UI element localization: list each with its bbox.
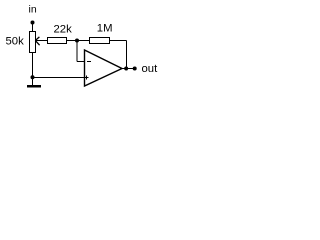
node out terminal dot xyxy=(133,67,137,71)
op-amp minus sign xyxy=(87,61,91,63)
resistor R3 1M body xyxy=(90,38,110,44)
node B ground junction dot xyxy=(31,75,35,79)
resistor R2 22k body xyxy=(48,38,67,44)
wire in-dot to potentiometer top xyxy=(32,23,34,32)
node in (terminal dot) xyxy=(31,21,35,25)
node A junction dot xyxy=(75,39,79,43)
op-amp U1 triangle xyxy=(85,50,123,86)
svg-text:out: out xyxy=(142,63,159,75)
wire R2 to node A xyxy=(67,40,90,42)
wire op-amp output to out terminal xyxy=(122,68,135,70)
pot wiper arrowhead xyxy=(35,37,39,45)
op-amp plus sign xyxy=(85,77,89,79)
wire pot bottom down to ground node xyxy=(32,53,34,86)
wire pot wiper to R2 xyxy=(35,40,47,42)
svg-text:in: in xyxy=(29,4,37,16)
ground xyxy=(27,85,41,88)
svg-text:22k: 22k xyxy=(54,24,73,36)
svg-text:50k: 50k xyxy=(6,36,25,48)
svg-text:1M: 1M xyxy=(97,23,113,35)
node C output junction dot xyxy=(124,67,128,71)
wire into inverting input xyxy=(77,61,85,63)
wire ground rail to non-inverting input xyxy=(33,77,85,79)
wire R3 right lead xyxy=(110,40,127,42)
potentiometer R1 50k body xyxy=(30,32,36,53)
wire node A down to inverting input xyxy=(76,41,78,62)
wire feedback down to output node xyxy=(126,41,128,69)
